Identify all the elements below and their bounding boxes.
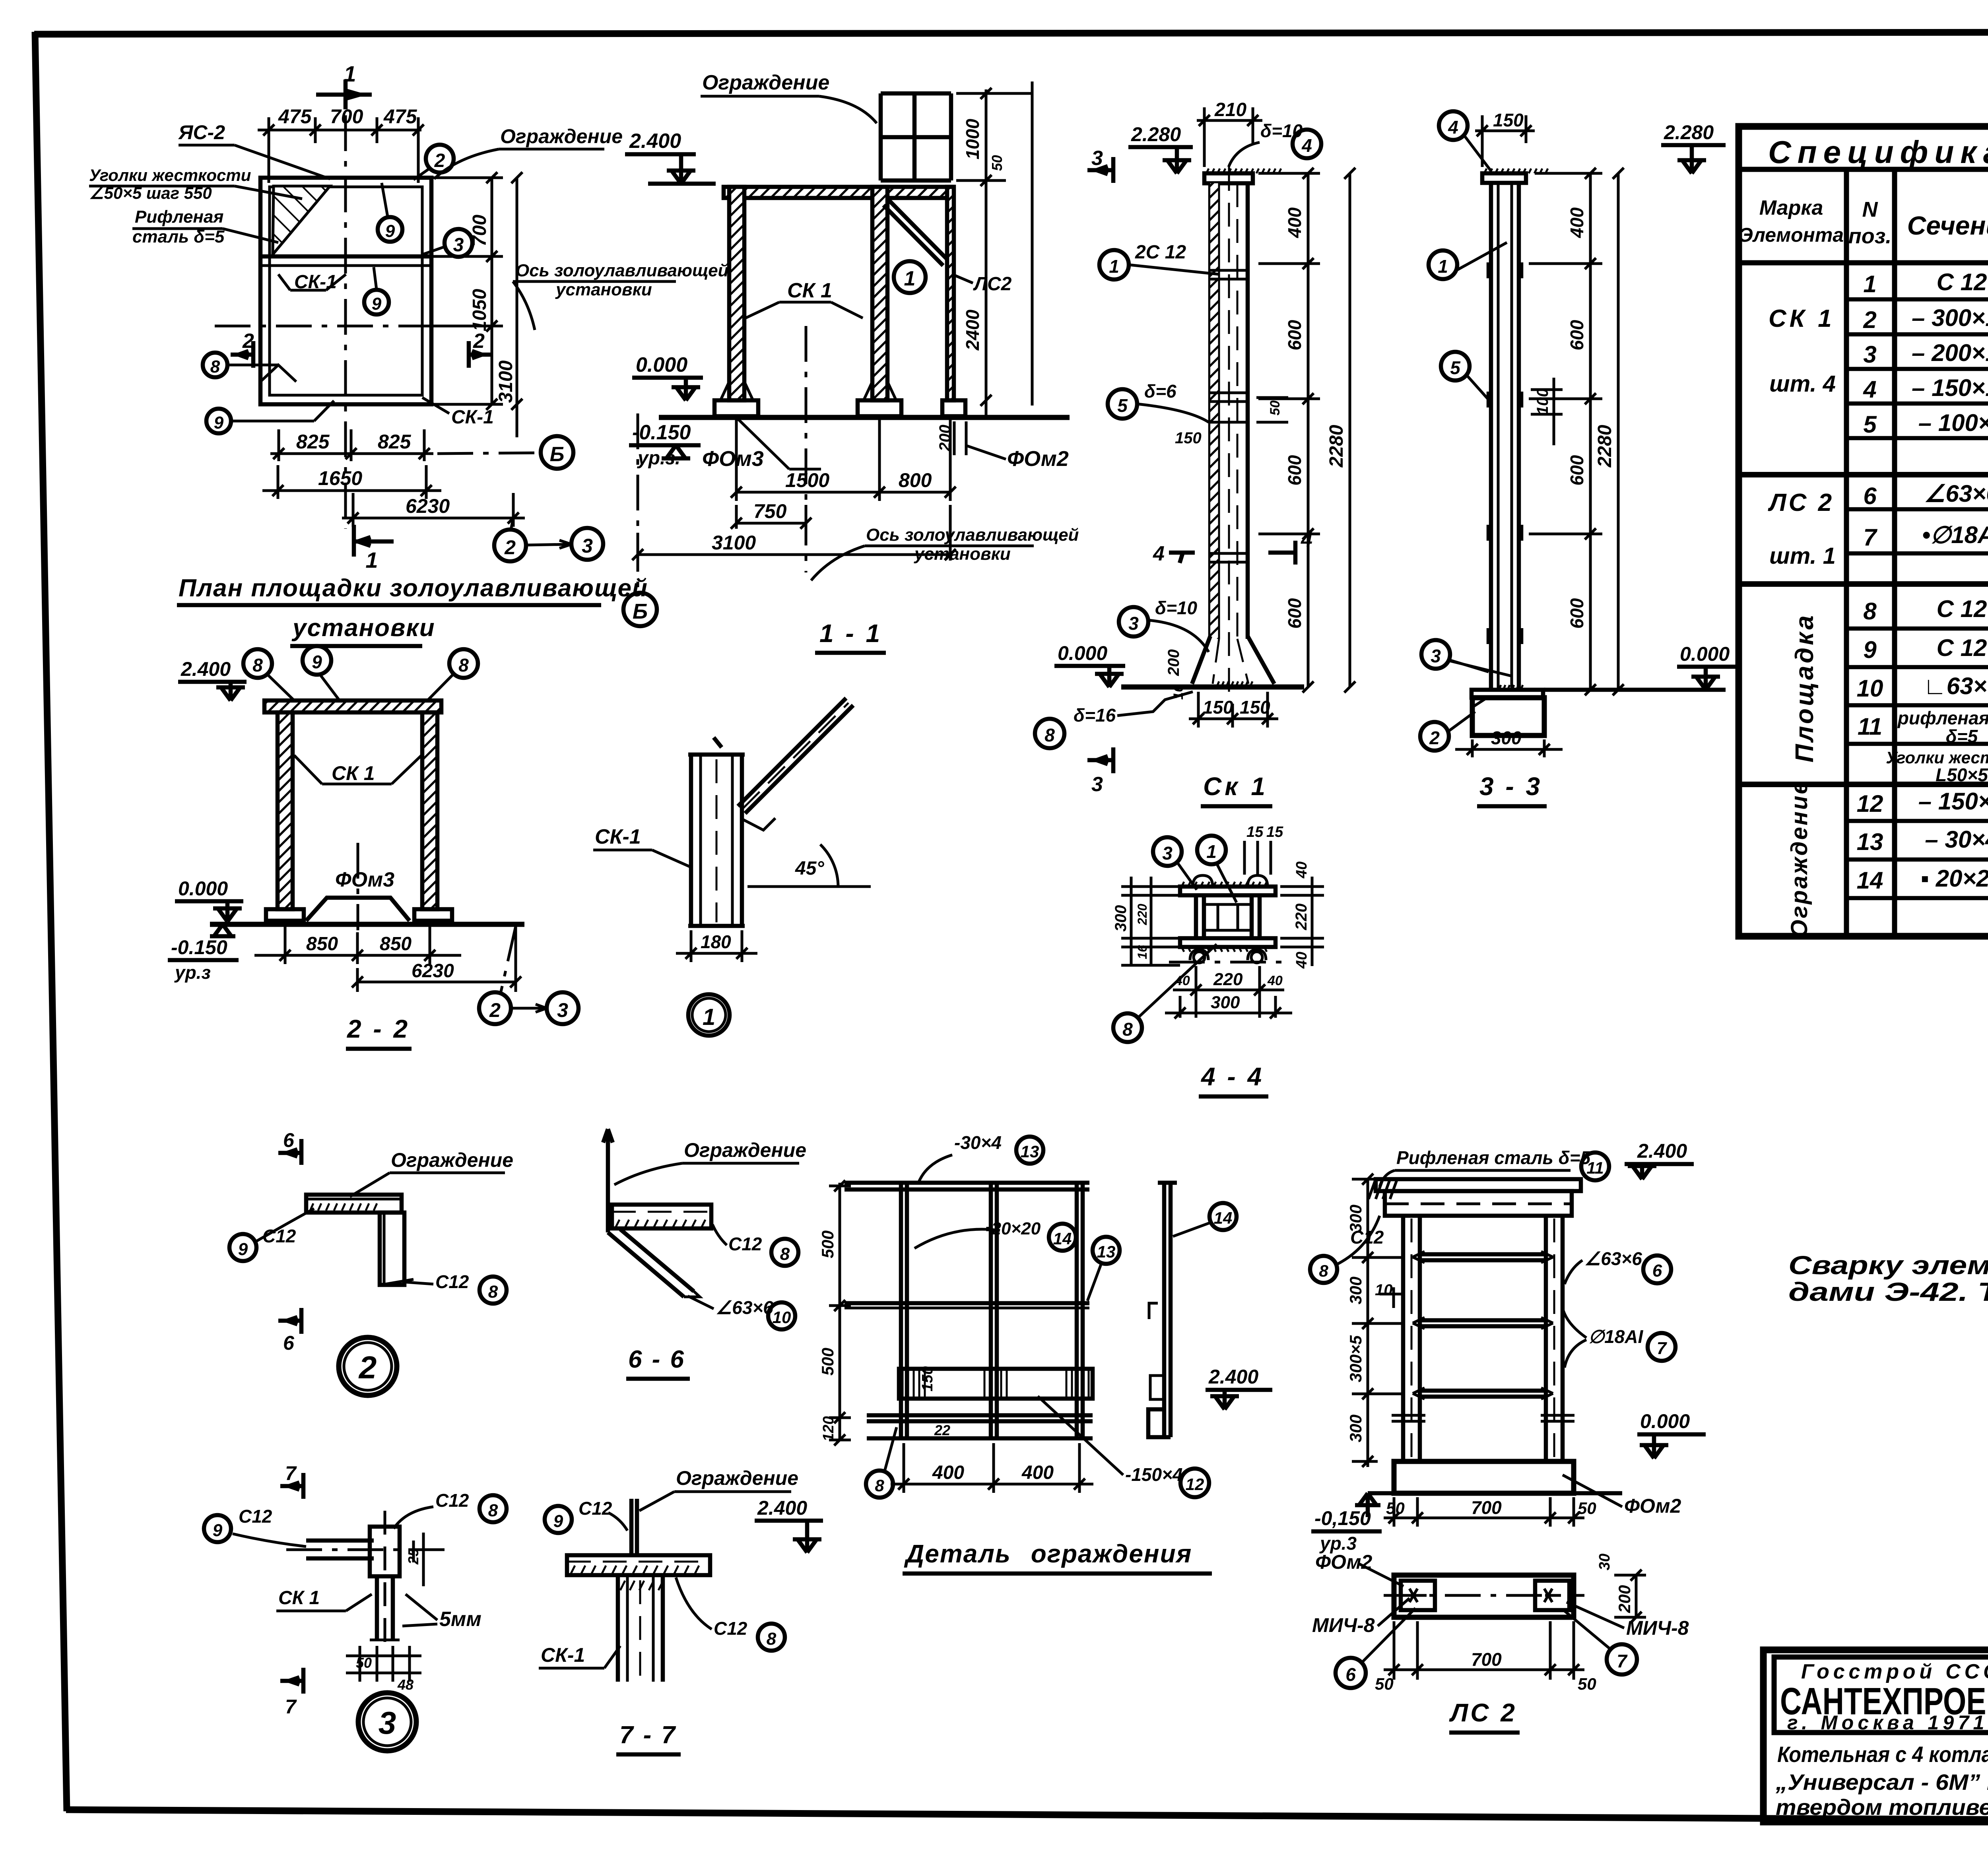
svg-text:400: 400 [932,1462,964,1483]
svg-text:3: 3 [1162,843,1173,863]
svg-text:2С 12: 2С 12 [1135,242,1186,263]
svg-text:8: 8 [1044,725,1055,745]
svg-text:150: 150 [1240,697,1270,718]
column cap [688,753,745,757]
svg-text:•∅18АI: •∅18АI [1922,522,1988,548]
section 4-4 [1112,824,1324,1096]
svg-text:– 100×6: – 100×6 [1918,409,1988,436]
circled 3 [1153,837,1182,866]
svg-text:600: 600 [1567,455,1587,485]
svg-text:2280: 2280 [1326,425,1347,468]
circled 3 bottom [1421,640,1450,669]
svg-text:∠63×6: ∠63×6 [716,1297,773,1318]
svg-text:С12: С12 [435,1490,469,1511]
svg-text:15: 15 [1246,824,1264,840]
bottom dim 6230 [342,493,525,527]
svg-text:шт. 4: шт. 4 [1769,371,1836,397]
svg-text:3: 3 [1128,613,1139,634]
right dim chain 1000 2400 [956,88,1032,417]
dim 210 above plate [1197,107,1262,167]
svg-text:400: 400 [1567,207,1587,238]
circled 5 label d=6 [1108,389,1137,419]
svg-text:1: 1 [703,1004,715,1030]
svg-text:Уголки жесткост: Уголки жесткост [1886,748,1988,767]
plan rectangle [1394,1575,1574,1617]
svg-text:2.280: 2.280 [1131,123,1181,146]
thin row lines [1846,299,1988,898]
fence detail [818,1132,1272,1574]
side view small rail stubs [1149,1303,1164,1399]
column strips [689,755,693,926]
svg-text:Ограждение: Ограждение [684,1139,806,1161]
circled B with axis [541,436,573,469]
svg-text:Деталь ограждения: Деталь ограждения [904,1539,1192,1568]
column base gussets [720,382,896,400]
svg-text:15: 15 [1266,824,1283,840]
svg-text:ЛС 2: ЛС 2 [1768,489,1834,516]
svg-text:дами Э-42. Толщина сварных: дами Э-42. Толщина сварных швов - 6 мм. [1788,1277,1988,1306]
fence left dim chain 500 500 120 [829,1180,851,1446]
svg-text:2280: 2280 [1594,425,1615,468]
ground line [659,415,1070,420]
svg-text:Рифленая: Рифленая [135,207,223,227]
axis B circle below [637,413,639,588]
bottom bolts [1190,950,1266,960]
svg-text:-150×4: -150×4 [1125,1464,1183,1485]
side view bottom bracket [1148,1409,1171,1437]
svg-text:7: 7 [1863,524,1877,551]
svg-text:8: 8 [1319,1261,1328,1280]
top plate [1482,173,1526,183]
svg-text:ур.з: ур.з [174,962,211,983]
svg-text:600: 600 [1284,455,1305,485]
circled 3 double view title [358,1693,416,1751]
svg-text:7 - 7: 7 - 7 [619,1721,677,1749]
svg-text:6: 6 [283,1129,295,1151]
svg-text:9: 9 [238,1240,248,1259]
left column [278,712,293,909]
svg-text:2400: 2400 [962,309,983,351]
svg-text:500: 500 [818,1230,837,1258]
svg-text:-0.150: -0.150 [171,936,227,959]
foundation trapezoid [306,898,410,921]
section 1-1 [623,71,1079,653]
svg-text:7: 7 [285,1462,297,1484]
toe plate band [899,1369,1093,1399]
svg-text:800: 800 [899,469,932,491]
svg-text:600: 600 [1284,320,1305,350]
svg-text:поз.: поз. [1848,224,1892,248]
svg-text:3: 3 [582,535,593,557]
svg-text:11: 11 [1858,713,1882,740]
svg-text:150: 150 [1175,429,1202,447]
svg-text:1 - 1: 1 - 1 [819,619,882,648]
svg-text:150: 150 [1203,697,1233,718]
svg-text:N: N [1862,198,1878,221]
svg-text:220: 220 [1213,970,1243,989]
svg-text:2.400: 2.400 [181,658,231,680]
svg-text:8: 8 [780,1244,790,1264]
section axis 1 top mark [344,80,348,109]
right dim chain 700 1050 [433,172,503,410]
svg-text:2: 2 [1863,307,1876,333]
svg-text:4: 4 [1301,135,1312,156]
circled 9 with C12 [204,1515,231,1542]
column lines [1844,169,1849,936]
plan axis horizontal dash-dot [215,325,469,328]
vertical post double [370,1527,400,1576]
svg-text:300×5: 300×5 [1346,1335,1365,1382]
plan view [89,61,729,646]
circled 13 right [1093,1237,1120,1264]
svg-text:Рифленая сталь δ=5: Рифленая сталь δ=5 [1396,1147,1591,1168]
svg-text:0.000: 0.000 [636,353,687,376]
dim 150 above plate [1475,115,1535,167]
svg-text:7: 7 [285,1696,297,1718]
circled 1 label 2C12 [1099,250,1129,279]
svg-text:6230: 6230 [412,960,454,982]
svg-text:3100: 3100 [495,360,516,403]
svg-text:2: 2 [473,330,485,353]
svg-text:0.000: 0.000 [1640,1410,1690,1432]
small dims 50 50 right mid [1256,398,1288,422]
svg-text:твердом топливе.: твердом топливе. [1776,1795,1988,1820]
svg-text:5мм: 5мм [439,1608,481,1631]
svg-text:9: 9 [385,221,395,241]
ground line right [1544,688,1726,692]
column flange lines [1489,183,1493,690]
svg-text:300: 300 [1211,993,1240,1012]
axis dash-dot [1169,961,1288,964]
circled 7 below [1607,1644,1637,1675]
center axis dash-dot [357,843,359,930]
small dim 25 [414,1533,423,1586]
dim 300 below foundation [1455,739,1563,757]
plan right fixing plate [1535,1581,1569,1610]
posts [901,1183,1083,1439]
svg-text:δ=10: δ=10 [1260,120,1303,141]
svg-text:2: 2 [489,999,501,1021]
svg-text:ЛС 2: ЛС 2 [1449,1698,1517,1727]
plan centerline [1384,1594,1584,1597]
base plate [1472,690,1543,698]
outer dim 2280 [1344,168,1355,693]
diagonal brace [883,199,947,266]
bottom dim 825 825 [270,429,433,461]
svg-text:6: 6 [283,1332,295,1354]
horizontal channel bar [306,1195,402,1213]
svg-text:1: 1 [365,547,378,572]
svg-text:100: 100 [1534,388,1551,415]
svg-text:1: 1 [1109,256,1119,277]
outer right extension line [1031,81,1034,406]
section 7 mark bottom [301,1668,306,1694]
svg-text:С12: С12 [728,1234,762,1254]
horizontal beam [306,1539,374,1543]
svg-text:Сварку элементов производить: Сварку элементов производить электро- [1788,1250,1988,1280]
svg-text:7: 7 [1657,1339,1668,1358]
dash link to circles 2-3 [511,518,513,530]
dim 850 850 [254,926,461,964]
section 2-2 [168,646,579,1049]
circled 5 [1441,352,1470,380]
svg-text:СК 1: СК 1 [787,279,832,302]
svg-text:750: 750 [753,500,787,522]
svg-text:Сечение: Сечение [1907,211,1988,240]
svg-text:400: 400 [1284,207,1305,238]
diagonal brace 45deg [738,698,853,813]
svg-text:9: 9 [213,1521,223,1540]
svg-text:С12: С12 [579,1498,612,1519]
circled 8 [203,353,227,377]
svg-text:∠63×6: ∠63×6 [1584,1248,1642,1269]
svg-text:48: 48 [397,1676,414,1693]
svg-text:500: 500 [818,1348,837,1376]
bottom dims 50 48 [346,1646,421,1682]
bottom dims 220 300 [1173,966,1284,1018]
middle column CK1 [872,187,887,400]
svg-text:Ось золоулавливающей: Ось золоулавливающей [516,261,729,280]
svg-text:рифленая ст.: рифленая ст. [1897,708,1988,728]
svg-text:2: 2 [1429,728,1440,748]
header bottom line [1739,260,1988,266]
base plates [714,400,758,416]
small dim 200 at right base [954,421,966,455]
svg-text:1: 1 [1863,271,1876,297]
ladder LS2 [1310,1140,1706,1733]
top dimension chain 475 700 475 [258,117,424,183]
circled 9 a [378,217,402,242]
base plates [266,909,304,921]
svg-text:8: 8 [1863,598,1877,625]
channels webs [1196,895,1260,938]
interior beam CK-1 [260,254,431,259]
svg-text:δ=10: δ=10 [1155,598,1198,618]
svg-text:Ограждение: Ограждение [1786,780,1812,937]
svg-text:50: 50 [1375,1675,1394,1693]
svg-text:С 12: С 12 [1937,269,1987,295]
svg-text:2: 2 [504,536,516,559]
section 4 marks [1169,551,1195,555]
dim 6230 [352,926,521,992]
installation axis dash-dot [805,326,808,572]
svg-text:700: 700 [330,105,363,128]
svg-text:1000: 1000 [962,118,983,159]
top tick [714,737,722,747]
svg-text:13: 13 [1857,829,1883,855]
circled 9 c [206,409,231,433]
diagonal angle brace [608,1229,694,1297]
dim 180 [676,930,757,962]
svg-text:14: 14 [1857,867,1883,894]
section 6 mark bottom [299,1308,304,1334]
svg-text:ФОм3: ФОм3 [335,868,394,891]
section 3 mark top [1111,157,1116,183]
right dim chain 400 600 600 600 [1258,168,1320,693]
dim 3100 [632,505,956,561]
svg-text:3: 3 [1091,147,1103,170]
svg-text:СК-1: СК-1 [541,1644,585,1666]
svg-text:10: 10 [1375,1281,1393,1299]
circled 8 [1113,1013,1142,1042]
svg-text:45°: 45° [795,858,824,879]
column body outer [1208,183,1213,639]
circled 1 double [688,994,730,1036]
bell base [1192,636,1274,684]
svg-text:8: 8 [875,1476,884,1495]
svg-text:12: 12 [1186,1475,1204,1494]
svg-text:11: 11 [1586,1158,1604,1177]
svg-text:2: 2 [242,330,254,353]
svg-text:1: 1 [1438,256,1448,277]
center dashed [1228,167,1230,700]
svg-text:16: 16 [1135,945,1149,959]
svg-text:Элемонта: Элемонта [1739,224,1844,246]
svg-text:600: 600 [1567,320,1587,350]
note ПРИМЕЧАНИЕ [1788,1188,1988,1306]
circled 8 top left [243,649,272,678]
section 7 mark top [301,1473,306,1499]
svg-text:Ск 1: Ск 1 [1203,772,1268,801]
node 2 [229,1129,513,1395]
svg-text:220: 220 [1293,904,1310,931]
svg-text:150: 150 [919,1366,936,1391]
top platform band [1376,1179,1581,1191]
circled 9 with C12 [229,1234,256,1261]
data rows [1857,269,1988,896]
svg-text:4: 4 [1153,542,1165,565]
svg-text:475: 475 [278,105,312,128]
svg-text:Котельная с 4 котлами: Котельная с 4 котлами [1777,1742,1988,1767]
svg-text:22: 22 [934,1422,950,1438]
circled 9 b [364,290,389,314]
right dim chain 400 600 600 600 [1529,168,1602,695]
right post LS2 [947,187,954,400]
svg-text:Уголки жесткости: Уголки жесткости [89,166,251,184]
svg-text:0.000: 0.000 [1058,642,1107,664]
section 2 cut marks [251,341,256,368]
svg-text:Марка: Марка [1759,196,1823,219]
foundation [1394,1461,1574,1493]
top bolt hooks [1193,875,1268,887]
svg-text:6230: 6230 [406,495,450,517]
svg-text:Площадка: Площадка [1790,613,1819,763]
svg-text:9: 9 [372,294,382,314]
section body: top plate [1180,887,1276,895]
svg-text:9: 9 [553,1512,563,1531]
svg-text:∟63×6: ∟63×6 [1923,673,1988,699]
vertical channel [380,1213,404,1285]
plan left fixing plate [1401,1581,1435,1610]
section 3-3 [1420,110,1741,806]
brace foot gusset [742,818,775,830]
svg-text:9: 9 [1863,636,1877,663]
svg-text:8: 8 [488,1501,498,1520]
svg-text:С 12: С 12 [1937,596,1987,622]
left stringer [1401,1216,1406,1461]
svg-text:– 200×10: – 200×10 [1912,340,1988,366]
circled 4 [1293,130,1321,158]
mid rail [845,1301,1089,1306]
svg-text:40: 40 [1293,952,1310,969]
svg-text:2 - 2: 2 - 2 [347,1015,410,1043]
svg-text:40: 40 [1267,973,1283,988]
svg-text:ЯС-2: ЯС-2 [178,121,225,144]
dim 1500 800 [731,417,956,501]
svg-text:План площадки золоулавливающ: План площадки золоулавливающей [179,574,648,602]
svg-text:50: 50 [356,1655,372,1671]
svg-text:-30×4: -30×4 [954,1132,1002,1153]
svg-text:150: 150 [1493,110,1524,130]
svg-text:3100: 3100 [712,532,756,554]
svg-text:С12: С12 [714,1618,747,1639]
svg-text:220: 220 [1135,904,1149,926]
svg-text:2.400: 2.400 [1208,1366,1258,1388]
svg-text:-0,150: -0,150 [1314,1507,1371,1529]
svg-text:шт. 1: шт. 1 [1769,543,1836,569]
svg-text:850: 850 [306,933,338,955]
circled 3 with leader [445,229,472,257]
section 6 mark top [299,1139,304,1165]
dim 750 [731,505,812,529]
svg-text:2: 2 [434,150,445,171]
column inner flanges [1210,183,1219,639]
circled 2 to 3 pair [494,530,526,561]
section 7-7 [539,1467,823,1754]
circled 2 to 3 pair [479,992,511,1024]
svg-text:СК 1: СК 1 [278,1587,320,1609]
top beam [264,700,441,712]
svg-text:12: 12 [1857,790,1883,817]
circled 1 [1429,250,1457,279]
svg-text:3: 3 [379,1705,396,1741]
svg-text:установки: установки [291,614,435,642]
svg-text:Ограждение: Ограждение [391,1149,513,1171]
svg-text:400: 400 [1021,1462,1054,1483]
bottom plate [1180,938,1276,947]
svg-text:8: 8 [1122,1019,1133,1040]
svg-text:δ=5: δ=5 [1946,726,1978,747]
right dim chain [1280,877,1324,966]
left dim chain 300s [1352,1174,1403,1467]
svg-text:5: 5 [1117,395,1128,416]
svg-text:300: 300 [1112,905,1130,932]
section axis 1 bottom mark [352,525,356,557]
svg-text:8: 8 [767,1629,777,1649]
dim 50 700 50 elevation [1384,1497,1584,1527]
svg-text:10: 10 [773,1308,791,1327]
platform band [612,1205,711,1228]
top beam [724,187,953,198]
svg-text:50: 50 [1386,1499,1405,1517]
svg-text:300: 300 [1491,728,1522,748]
svg-text:– 30×4: – 30×4 [1925,826,1988,853]
svg-text:2.400: 2.400 [757,1497,807,1519]
svg-text:200: 200 [1165,649,1182,676]
svg-text:1500: 1500 [785,469,829,491]
svg-text:50: 50 [1578,1499,1596,1517]
svg-text:14: 14 [1214,1209,1233,1227]
svg-text:4 - 4: 4 - 4 [1200,1062,1264,1091]
table outer border [1739,126,1988,936]
circled 9 top [303,646,331,675]
svg-text:2.400: 2.400 [629,130,681,153]
svg-text:9: 9 [312,652,322,672]
dim 150 150 below base [1189,692,1278,728]
svg-text:С12: С12 [435,1271,469,1292]
platform outline double [260,178,431,404]
svg-text:40: 40 [1293,862,1310,879]
